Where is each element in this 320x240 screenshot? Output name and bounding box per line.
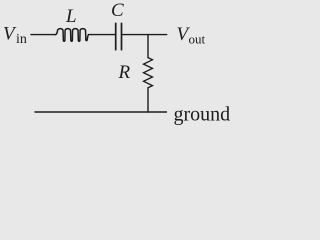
svg-text:in: in bbox=[16, 32, 27, 47]
svg-text:ground: ground bbox=[174, 104, 231, 126]
svg-text:L: L bbox=[65, 6, 77, 27]
svg-text:V: V bbox=[3, 24, 17, 45]
svg-text:out: out bbox=[189, 32, 206, 47]
svg-text:C: C bbox=[111, 0, 124, 21]
svg-text:R: R bbox=[118, 62, 131, 83]
